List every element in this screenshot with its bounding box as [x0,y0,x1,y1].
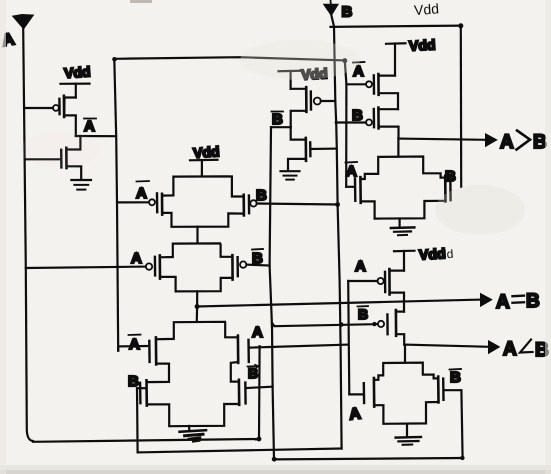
pass pair P1 (Abar,B) XNOR pullup top body [157,176,249,226]
ground A-less [396,424,421,445]
wire Abar gate feed A-greater pullup [346,83,365,85]
wire Bbar rail vertical [270,127,274,459]
right channel lower [238,380,241,405]
svg-text:B: B [128,373,139,390]
svg-text:B: B [445,168,456,185]
nmos U1.N gate bar [60,150,63,168]
upper outline [361,157,446,180]
pmos U2.P source lead [291,111,307,127]
label Abar at N1 [129,335,141,353]
lower outline [374,402,438,424]
right channel upper [237,336,240,363]
wire A gate line to XNOR pulldown [251,345,349,348]
power Vdd U2 [279,70,301,73]
left channel upper [155,337,158,364]
power Vdd A-less [394,251,415,271]
wire A to inverter NMOS gate [26,158,59,160]
wire A rail to P5 gate [348,280,377,282]
pmos P1.right gate bubble [250,200,256,206]
node blob at B crossing [339,322,344,327]
label Abar at inverter output [84,118,96,135]
P4 drain lead [379,108,398,110]
wire XNOR output stem [196,291,199,321]
P3 channel bar [377,74,380,95]
pmos U2.P gate bubble [314,98,321,105]
svg-text:Vdd: Vdd [64,63,92,81]
power Vdd XNOR pullup [190,160,218,175]
P5 gate bar [384,272,387,292]
P6 source lead [396,334,404,344]
pmos U1.P gate bar [58,99,61,114]
nmos N4 gate bar (Bbar) [244,383,247,404]
label Bbar at inverter output [272,111,284,128]
wire A-greater output line [399,139,487,140]
P3 drain lead [379,74,395,76]
wire Abar gate feed A-greater pulldown [346,186,354,188]
pmos P2.right gate bar [236,257,239,276]
nmos U2.N channel bar [304,138,307,161]
pmos P2.left gate bar [154,257,157,276]
wire A-equal output line [197,300,481,307]
output arrow A-equal [481,294,492,307]
pmos U2.P drain lead [291,88,306,90]
svg-text:Vdd: Vdd [193,143,221,161]
wire U2.N gate to B [310,148,336,151]
lower outline [361,201,446,219]
wire Bbar gate feed XNOR pullup [246,264,269,267]
wire Bbar riser right [461,390,462,458]
wire A rail to N7 gate [349,393,363,395]
svg-text:A: A [348,405,362,423]
nmos N2 gate bar (B) [139,383,142,403]
pmos P6 (Bbar) A-less pullup [378,310,404,345]
pmos P4 (B) A-greater pullup [336,108,399,139]
inverter U2 (B -> Bbar) [279,71,337,180]
wire A bottom horizontal [33,439,259,442]
svg-text:B: B [352,107,363,124]
P4 gate bar [373,109,376,127]
node Bbar bottom corner [272,457,277,462]
wire Bbar gate feed A-less pullup [272,323,378,327]
svg-text:B: B [358,306,368,322]
wire U2.P gate to B [321,100,336,102]
node junction P1 gate B [335,202,340,207]
wire B bottom branch [138,449,342,453]
pmos P2.left gate bubble [146,263,152,269]
wire A vertical left [23,29,33,441]
nmos U2.N gate bar [309,142,312,156]
svg-text:A: A [496,292,510,313]
label Bbar at N8 [450,369,462,386]
wire Abar to P1 gate [117,201,148,203]
svg-text:B: B [256,187,267,204]
wire A to XNOR pullup PMOS gate [26,267,146,268]
svg-text:Vdd: Vdd [419,245,446,262]
node B top-right junction [458,23,463,28]
label Abar at P1 [136,181,149,202]
label Abar at N5 [346,162,358,180]
pmos U1.P channel bar [63,96,66,117]
svg-text:B: B [252,250,263,267]
pmos P1.left gate bubble [149,199,155,205]
svg-text:Vdd: Vdd [409,36,436,53]
left channel bar [359,177,362,203]
svg-text:A: A [131,250,142,267]
nmos N5 gate bar (Abar) [354,178,357,200]
wire B to P4 gate [336,121,366,123]
ground U1 [71,179,91,181]
pass pair P2 (A,Bbar) XNOR pullup bottom body [155,243,238,291]
pmos P5 (A) A-less pullup [348,269,404,312]
P3 source lead [379,93,398,109]
wire A rail right [348,281,349,394]
wire Bbar bottom branch [274,458,462,459]
wire Bbar output [271,126,291,128]
svg-text:A: A [500,132,514,153]
input B arrow [324,0,339,16]
nmos U1.N drain lead [67,136,81,150]
pmos P3 (Abar) A-greater pullup [366,74,398,109]
svg-text:A: A [346,163,357,180]
pmos P1.right channel bar [242,195,245,216]
svg-text:Vdd: Vdd [413,0,439,18]
P4 source lead [379,127,399,139]
label A-less-B [503,339,549,361]
input A arrow [13,15,33,29]
nmos pair A-greater pulldown body [355,139,451,219]
node A bottom junction [257,437,262,442]
svg-text:A: A [84,118,95,135]
left channel bar [373,378,376,407]
svg-text:A: A [129,336,140,353]
node blob on Bbar gate line [372,322,376,326]
pmos P1.right gate bar [248,196,251,214]
pmos U2.P channel bar [305,87,308,112]
wire Bbar gate feed A-less pulldown [444,389,461,391]
node Abar rail top corner [112,57,117,62]
label Bbar at N4 [248,365,259,381]
wire node between P1 and P2 [196,227,198,244]
P6 gate bar [386,314,389,334]
right channel bar [437,377,440,403]
nmos U1.N channel bar [65,148,68,168]
upper band outline [156,322,237,339]
right channel bar [444,176,447,202]
node Bbar bottom right corner [460,456,464,460]
label Bbar at P6 [358,306,369,322]
P3 gate bar [373,75,376,93]
label Abar at P3 [353,62,365,80]
middle connector right [231,362,239,382]
bottom outline [147,404,239,426]
pmos P1.left gate bar [156,193,159,212]
stem from output [404,345,406,363]
P5 source lead [390,293,404,312]
wire Abar rail left vertical [114,59,118,350]
pmos P2.right gate bubble [240,261,246,267]
svg-text:A: A [136,185,147,202]
node Abar top right corner [342,58,347,63]
P5 drain lead [390,270,404,272]
pmos P2.right channel bar [231,255,234,279]
upper outline [374,363,438,380]
label Bbar at P2 [252,249,263,267]
wire B vertical main [331,15,341,449]
svg-text:B: B [342,4,353,21]
output arrow A-greater [486,134,497,147]
pmos U1.P gate bubble [53,105,59,111]
pmos U1.P drain lead [64,98,76,137]
wire A to inverter PMOS gate [25,107,53,109]
svg-text:A: A [355,258,366,275]
middle connector left [147,364,169,383]
stem from output [397,139,399,157]
wire B gate feed XNOR pulldown [137,387,145,389]
inverter U1 (A -> Abar) [53,84,91,190]
pmos U2.P gate bar [310,92,313,110]
nmos network XNOR pulldown body [140,322,249,426]
wire Bbar gate feed XNOR pulldown [247,387,272,388]
P4 channel bar [377,108,380,129]
P5 channel bar [388,269,391,294]
nmos N7 gate bar (A) [363,383,366,403]
nmos U1.N source lead [67,166,82,179]
wire P1 right gate to B [257,204,338,205]
wire B riser to XNOR pulldown gate [136,388,139,452]
nmos pair A-less pulldown body [364,345,444,424]
nmos N1 gate bar (Abar) [148,341,151,362]
nmos N3 gate bar (A) [247,340,250,362]
ground U2 [281,170,300,172]
wire B top branch [331,26,462,27]
P6 gate bubble [378,321,384,327]
wire Abar output [76,135,116,137]
svg-text:ld: ld [444,247,454,261]
ground A-greater [391,219,415,236]
power Vdd A-greater [386,43,406,75]
pmos P2.left channel bar [159,255,162,278]
svg-text:A: A [252,324,263,341]
P6 drain lead [396,311,404,313]
left channel lower [145,380,148,405]
P6 channel bar [395,310,398,336]
nmos U2.N drain lead [291,127,306,139]
nmos N6 gate bar (B) [449,177,452,200]
wire Abar top horizontal [114,57,344,60]
svg-text:B: B [533,132,547,153]
P5 gate bubble [378,278,384,284]
nmos U2.N source lead [288,159,306,170]
wire A riser center [258,346,261,438]
svg-text:B: B [272,111,283,128]
wire B riser right [460,26,463,187]
svg-text:A: A [503,339,517,360]
output arrow A-less [489,341,500,354]
wire Abar riser right [345,61,347,187]
label A=B [496,291,540,313]
pmos P1.left channel bar [161,194,164,215]
ground XNOR pulldown [180,426,206,442]
label A>B [500,131,547,154]
nmos N8 gate bar (Bbar) [442,379,445,400]
svg-text:B: B [526,291,540,312]
P4 gate bubble [366,119,372,125]
wire A-less output line [404,345,489,347]
wire Abar gate feed XNOR pulldown [118,346,147,351]
svg-text:B: B [450,369,461,386]
P3 gate bubble [366,81,372,87]
node XNOR output junction [195,304,200,309]
power Vdd U1 [61,82,90,84]
